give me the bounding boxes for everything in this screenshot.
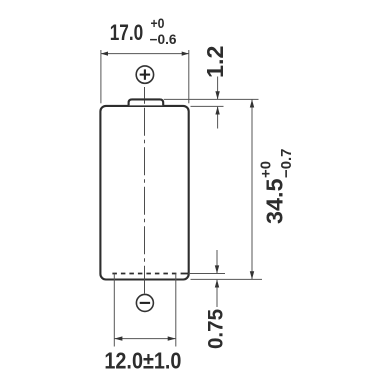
svg-text:−0.6: −0.6	[150, 32, 177, 47]
dimension line 12.0	[114, 338, 176, 340]
centerline (dash-dot) through battery body	[144, 100, 146, 294]
label 34.5 +0/-0.7 (rotated)	[258, 149, 296, 225]
extension line bottom level right	[191, 278, 263, 280]
plus terminal symbol	[136, 66, 153, 83]
positive button terminal cap	[129, 99, 164, 105]
svg-text:0.75: 0.75	[204, 309, 227, 349]
extension line button top level	[164, 98, 259, 100]
extension line right (12.0 dim)	[175, 274, 177, 347]
extension line dashed-line level right	[189, 273, 226, 275]
minus terminal symbol	[136, 294, 153, 311]
arrow left (12.0)	[114, 336, 122, 340]
solid end of insulator line into right wall	[181, 273, 189, 275]
dimension line 17.0	[101, 53, 189, 55]
arrow down (34.5)	[250, 271, 254, 279]
arrow up (34.5)	[250, 99, 254, 107]
arrow right (12.0)	[168, 336, 176, 340]
extension line shoulder level	[191, 105, 224, 107]
centerline segment between plus symbol and button	[144, 87, 146, 99]
svg-text:+0: +0	[258, 161, 275, 178]
svg-text:−0.7: −0.7	[278, 149, 295, 179]
extension line left (17.0 dim)	[100, 50, 102, 103]
battery body outline	[100, 106, 188, 280]
dim 1.2 upper leader with down arrow	[217, 77, 219, 100]
svg-text:1.2: 1.2	[202, 46, 228, 79]
svg-text:+0: +0	[151, 16, 165, 31]
extension line left (12.0 dim)	[113, 274, 115, 347]
dimension line 34.5 vertical	[251, 99, 253, 279]
svg-text:12.0±1.0: 12.0±1.0	[104, 347, 181, 373]
dim 0.75 lower leader with up arrow	[216, 280, 218, 307]
arrow left (17.0)	[101, 52, 108, 56]
svg-text:17.0: 17.0	[110, 20, 144, 45]
svg-text:34.5: 34.5	[262, 179, 288, 225]
extension line right (17.0 dim)	[188, 50, 190, 103]
dim 1.2 lower leader with up arrow	[217, 107, 219, 129]
label 17.0 +0/-0.6	[110, 16, 177, 47]
dashed line bottom insulator	[112, 273, 179, 275]
dim 0.75 upper leader with down arrow	[216, 250, 218, 273]
arrow right (17.0)	[182, 52, 189, 56]
